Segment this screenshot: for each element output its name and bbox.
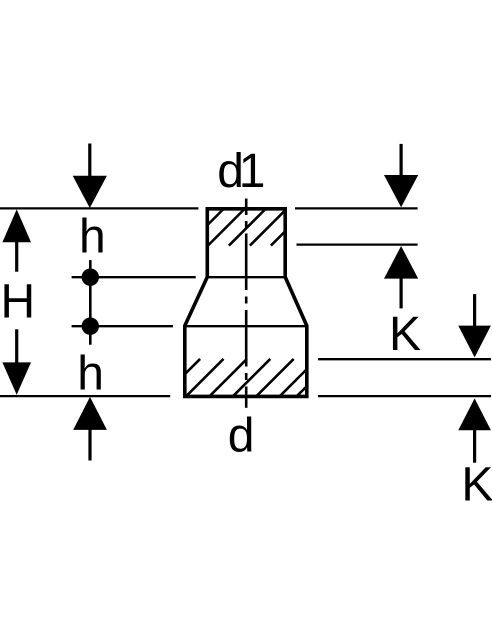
hatching lower socket (depth K) [185, 359, 308, 397]
taper-end extension line (through dot 2) [72, 325, 173, 327]
arrow h bottom (up) [73, 397, 107, 461]
dot terminator 1 [82, 269, 99, 286]
dimension line top left (H/h top reference) [0, 207, 198, 209]
dimension line top right (K1 top reference) [295, 207, 418, 209]
vertical line through dots [89, 260, 92, 345]
interior line at taper end [184, 325, 307, 327]
svg-text:H: H [1, 275, 36, 328]
arrow K1 bottom (up) [384, 246, 418, 308]
interior line at taper start [207, 276, 286, 278]
K2 top reference line [318, 358, 491, 360]
svg-text:h: h [79, 211, 106, 264]
dot terminator 2 [82, 318, 99, 335]
svg-text:K: K [389, 308, 421, 361]
svg-text:h: h [77, 348, 104, 401]
arrow H top (up) [2, 209, 31, 271]
arrow K1 top (down) [384, 144, 418, 207]
svg-text:1: 1 [239, 145, 266, 198]
arrow h top (down) [73, 144, 107, 209]
dimension line bottom right (K2 bottom reference) [318, 395, 491, 397]
arrow K2 top (down) [458, 294, 491, 357]
svg-text:K: K [461, 458, 492, 511]
dimension line bottom left (H bottom reference) [0, 395, 170, 397]
taper-start extension line (through dot 1) [72, 276, 196, 278]
K1 bottom reference line [297, 243, 418, 245]
hatching upper socket (depth K) [207, 209, 286, 247]
reducer body outline [185, 209, 307, 397]
vertical centerline (dash-dot) [245, 199, 248, 408]
svg-text:d: d [228, 410, 255, 463]
arrow K2 bottom (up) [458, 398, 491, 462]
arrow H bottom (down) [2, 329, 31, 395]
